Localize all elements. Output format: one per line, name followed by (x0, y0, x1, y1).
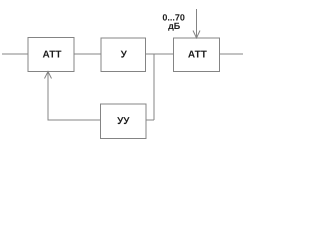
svg-text:УУ: УУ (117, 116, 130, 127)
wire feedback up to ATT1 (47, 72, 49, 121)
wire branch into UU right side (146, 119, 154, 121)
wire U to ATT2 (146, 53, 174, 55)
wire ATT1 to U (74, 53, 101, 55)
wire branch from main line down (153, 54, 155, 120)
svg-text:АТТ: АТТ (43, 50, 62, 61)
attenuator ATT1 box (28, 38, 74, 72)
wire input left (2, 53, 28, 55)
arrowhead into ATT1 bottom (45, 72, 52, 79)
control arrow into ATT2 (196, 9, 198, 38)
wire output right (220, 53, 244, 55)
svg-text:АТТ: АТТ (188, 50, 207, 61)
amplifier U box (101, 38, 146, 72)
attenuator ATT2 box (174, 38, 220, 72)
control unit UU box (101, 104, 147, 139)
svg-text:дБ: дБ (168, 21, 181, 31)
wire UU output to left (48, 119, 101, 121)
svg-text:У: У (121, 50, 128, 61)
